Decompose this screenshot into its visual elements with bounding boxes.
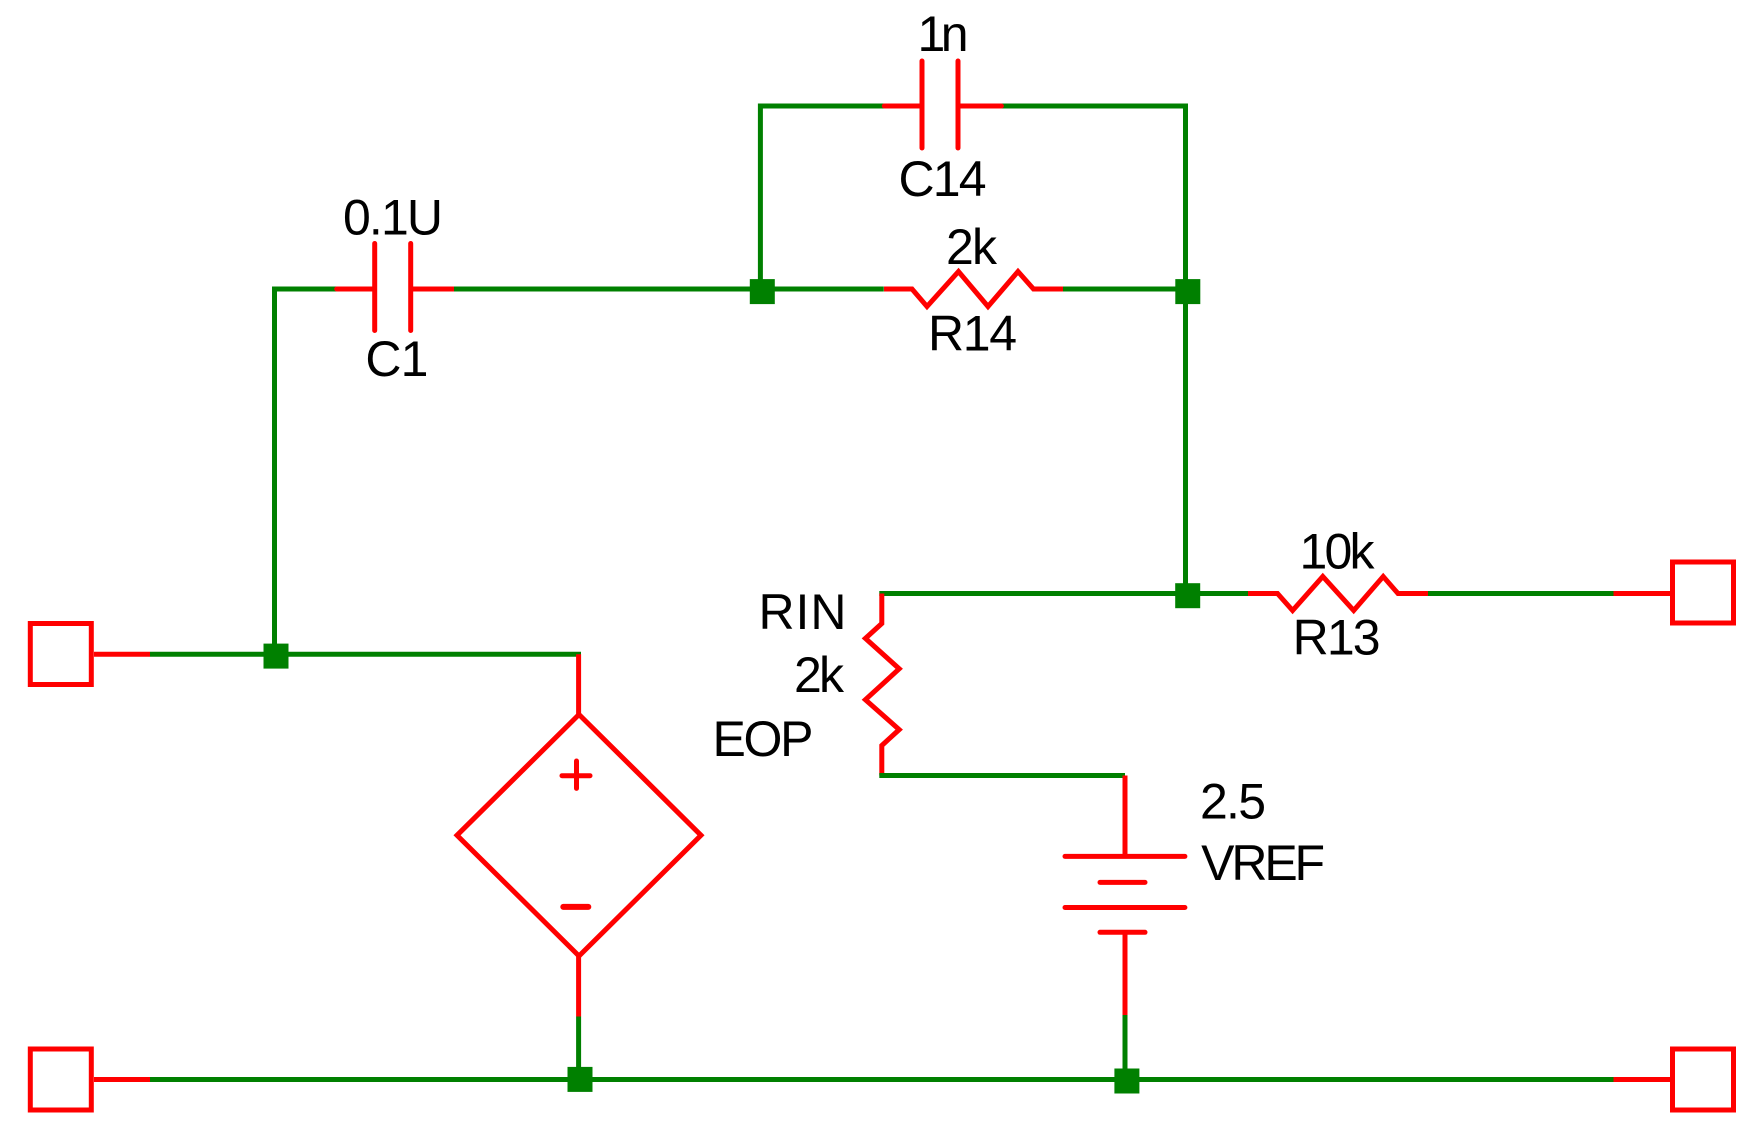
resistor R13 xyxy=(1248,577,1428,611)
svg-text:C1: C1 xyxy=(365,331,428,387)
wire: battery bottom green to node N6 xyxy=(1123,1015,1128,1081)
battery bottom lead xyxy=(1123,932,1128,1015)
svg-text:VREF: VREF xyxy=(1201,835,1325,891)
controlled source EOP diamond top lead xyxy=(576,654,581,714)
svg-text:2.5: 2.5 xyxy=(1200,773,1266,829)
capacitor C14 plates xyxy=(922,61,958,148)
wire: row C left (RIN top corner to N4 to R13) xyxy=(882,591,1248,594)
port left bottom xyxy=(30,1049,91,1110)
svg-text:1n: 1n xyxy=(918,6,969,62)
node N5 xyxy=(568,1067,593,1092)
wire: bottom left port red pin stub xyxy=(94,1077,150,1082)
node N2 xyxy=(750,279,775,304)
controlled source bottom lead xyxy=(576,956,581,1017)
node N4 xyxy=(1175,583,1200,608)
capacitor C1 leads xyxy=(337,287,454,292)
svg-text:C14: C14 xyxy=(899,151,987,207)
controlled source EOP diamond xyxy=(457,715,701,957)
wire: row C between R13 and right port stub xyxy=(1428,591,1614,596)
resistor RIN (vertical) xyxy=(865,594,899,776)
wire: row B left corner + C1 left stub xyxy=(275,289,337,400)
capacitor C14 leads xyxy=(884,104,1001,109)
wire: diamond bottom green to node N5 xyxy=(576,1017,581,1082)
svg-text:EOP: EOP xyxy=(713,711,814,767)
node N1 xyxy=(264,644,289,669)
voltage source VREF (battery) top lead xyxy=(1123,776,1128,857)
wire: bottom right port red pin stub xyxy=(1614,1077,1671,1082)
svg-text:R13: R13 xyxy=(1293,610,1381,666)
svg-text:0.1U: 0.1U xyxy=(343,190,443,246)
wire: row F (left port to diamond top corner, through N1) xyxy=(150,652,581,657)
battery plates xyxy=(1065,856,1185,932)
wire: row B right (R14 right to col6) xyxy=(1063,287,1188,292)
wire: col1 vertical (row B corner down to N1) xyxy=(272,289,277,656)
wire: row D (RIN bottom to battery top) xyxy=(882,773,1125,776)
node N6 xyxy=(1114,1069,1139,1094)
svg-text:RIN: RIN xyxy=(759,584,847,640)
minus sign inside diamond xyxy=(563,904,588,910)
capacitor C1 plates xyxy=(375,244,411,331)
svg-text:2k: 2k xyxy=(946,219,998,275)
node N3 xyxy=(1175,279,1200,304)
svg-text:R14: R14 xyxy=(928,306,1017,362)
wire: col3 vertical from node N2 up to row A xyxy=(758,104,763,292)
port right mid xyxy=(1673,562,1734,623)
wire: row B middle (C1 right to R14 left, through N2) xyxy=(454,287,884,292)
resistor R14 xyxy=(884,272,1063,307)
svg-text:10k: 10k xyxy=(1300,523,1376,579)
wire: col6 right vertical from row A down through N3 to N4 xyxy=(1183,104,1188,596)
wire: row E bottom rail xyxy=(150,1077,1614,1082)
wire: top loop horizontal left segment (row A) xyxy=(758,104,886,109)
wire: left mid port red pin stub xyxy=(94,652,150,657)
wire: top loop horizontal right segment (row A) xyxy=(1000,104,1188,109)
wire: right mid port red pin stub xyxy=(1614,591,1671,596)
port left mid xyxy=(30,624,91,685)
plus sign inside diamond xyxy=(562,761,590,788)
svg-text:2k: 2k xyxy=(794,647,845,703)
port right bottom xyxy=(1673,1049,1734,1110)
